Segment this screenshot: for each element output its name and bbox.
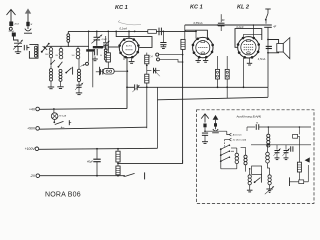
- switch bar S2b: [72, 67, 74, 75]
- lead to tuning cap: [96, 31, 98, 37]
- lead cap to terminal: [103, 71, 108, 73]
- box antenna 2 cup: [213, 129, 218, 131]
- wire y47 band area: [46, 45, 88, 47]
- svg-text:4F: 4F: [222, 19, 225, 22]
- box antenna 2 lead: [215, 120, 217, 129]
- grid coupling cap: [106, 44, 108, 50]
- pencil mark curve: [118, 22, 141, 25]
- box coil Lb4: [266, 152, 270, 163]
- box plug chevron 1: [229, 133, 231, 136]
- ground under trimmer: [15, 52, 21, 54]
- tube V1 ground lead: [131, 58, 133, 62]
- trimmer arrow: [13, 40, 23, 50]
- speaker transformer bottom lead: [268, 51, 279, 54]
- box trimmer 1: [276, 145, 278, 150]
- resistor R5 screen: [226, 56, 228, 69]
- switch blade S2a: [58, 66, 60, 68]
- svg-text:KC 1: KC 1: [115, 5, 128, 11]
- bus A left segment: [127, 86, 134, 88]
- link R5 to bus B: [226, 87, 228, 98]
- ground under tube V1: [129, 62, 135, 64]
- wire grid top lead tube1: [128, 31, 130, 33]
- rail +90V: [39, 127, 147, 129]
- box antenna blob: [203, 124, 206, 128]
- oscillator coupling coil L2: [67, 34, 70, 43]
- ground under L6: [78, 87, 80, 92]
- junction cap down: [163, 31, 165, 33]
- tuning gang rotor bar 2: [86, 49, 94, 51]
- tube V3 cathode to bus: [243, 58, 245, 88]
- wire riser to terminal: [88, 31, 90, 61]
- coil L4: [59, 69, 62, 81]
- tube V1 cathode lead: [126, 58, 128, 109]
- tube V3 ground lead: [249, 58, 251, 63]
- junction 4F: [217, 24, 219, 26]
- tube V2 ground 2: [205, 57, 207, 60]
- svg-text:KC 1: KC 1: [190, 5, 203, 11]
- switch S3 blade: [266, 13, 268, 19]
- capacitor 4F top lead: [220, 14, 222, 22]
- speaker feed vertical: [267, 27, 269, 87]
- tube V2 KC1 envelope: [192, 37, 214, 58]
- box resistor R9 horizontal: [299, 180, 304, 184]
- svg-text:für Übersee[4]: für Übersee[4]: [233, 138, 247, 141]
- antenna terminal: [9, 27, 12, 30]
- box switch near Lb5: [254, 181, 256, 183]
- junction tuning cap: [96, 31, 98, 33]
- terminal +90V: [36, 127, 40, 131]
- AVC vertical line: [182, 49, 184, 163]
- speaker transformer top lead: [268, 40, 279, 44]
- cap 4F bottom lead: [220, 26, 222, 31]
- phono terminal 2: [157, 58, 160, 61]
- box resistor R8 vertical: [298, 138, 300, 162]
- coil L6: [78, 59, 80, 69]
- bus A main: [137, 86, 268, 88]
- wire antenna to trimmer: [14, 37, 19, 43]
- svg-text:60: 60: [100, 55, 102, 57]
- resistor R7 divider lower: [117, 163, 119, 166]
- junction right of tube1: [134, 31, 136, 33]
- junction T1: [146, 65, 148, 67]
- box output bar: [289, 177, 291, 186]
- switch blade L3: [50, 63, 52, 65]
- svg-text:+90V: +90V: [27, 127, 36, 131]
- capacitor 4F plates: [218, 23, 225, 26]
- tuning gang rotor bar 1: [93, 46, 103, 48]
- junction cap 40uF: [96, 148, 98, 150]
- junction T1 bus A: [146, 86, 148, 88]
- capacitor 40uF: [96, 149, 98, 159]
- junction bus/riser: [88, 31, 90, 33]
- svg-text:ACH 1: ACH 1: [126, 45, 133, 48]
- antenna coil L1 winding: [34, 46, 37, 57]
- resistor R6 divider upper: [117, 149, 119, 151]
- dashed enclosure border: [197, 110, 315, 204]
- lead L2 bottom: [67, 42, 69, 47]
- box cap M plates: [256, 124, 259, 130]
- grid lead tube3 up: [252, 25, 254, 38]
- phono terminal 1: [156, 53, 159, 56]
- lead between gang sections: [96, 40, 98, 46]
- switch S3 top bar: [265, 8, 270, 10]
- box coil Lb1: [236, 148, 238, 153]
- svg-text:Ausführung ErA[4]: Ausführung ErA[4]: [236, 115, 262, 119]
- ground under L4: [60, 81, 62, 86]
- band switch S1 contacts: [41, 43, 50, 53]
- junction cathode/bus A: [126, 86, 128, 88]
- divider tap wire: [118, 160, 183, 163]
- box band switch blades: [220, 140, 230, 169]
- ground mid: [94, 56, 96, 58]
- lead into coil box: [27, 47, 29, 49]
- coil L3b: [49, 69, 52, 81]
- box ground under cap: [204, 135, 206, 141]
- grid leak riser: [107, 31, 109, 52]
- grid lead tube2: [195, 31, 197, 33]
- bus B wire: [157, 97, 268, 100]
- box coil Lb3: [267, 127, 269, 134]
- capacitor in series with antenna coil: [24, 45, 27, 50]
- svg-text:+100V: +100V: [25, 147, 36, 151]
- speaker body: [277, 44, 284, 53]
- box small frame: [252, 166, 262, 174]
- gang down lead to ground bus: [92, 52, 94, 88]
- loop wire over tube1: [115, 31, 117, 33]
- capacitor 200pF (blob): [12, 33, 16, 37]
- svg-text:2V 0,2A: 2V 0,2A: [58, 115, 67, 118]
- svg-text:300: 300: [55, 55, 58, 57]
- svg-text:+4V: +4V: [29, 107, 36, 111]
- capacitor C4 series plates: [159, 28, 161, 36]
- terminal +4V: [36, 107, 40, 111]
- junction divider: [117, 148, 119, 150]
- wire cap to tube1: [108, 46, 119, 48]
- coupling cap on bus A: [135, 84, 138, 90]
- coil L5 top row: [77, 46, 79, 48]
- box coil Lb2 top lead: [231, 150, 234, 152]
- box ground under Lb6: [269, 185, 271, 189]
- IF transformer winding T1b: [145, 74, 149, 83]
- oscillator coil L7: [105, 36, 107, 42]
- svg-text:40µF: 40µF: [87, 160, 93, 164]
- loop over tube3 0,2mF: [235, 29, 262, 48]
- box cap under antenna: [204, 130, 206, 132]
- lead padder to cathode line: [114, 70, 127, 72]
- rail +4V: [39, 107, 127, 110]
- padder end bar: [99, 67, 101, 75]
- riser link bus B to bus A: [156, 87, 158, 100]
- tuning cap plates mid: [95, 49, 98, 55]
- svg-text:7,4: 7,4: [149, 56, 153, 59]
- wire 0,55mA: [185, 24, 268, 26]
- box wire y144.8: [251, 144, 311, 146]
- speaker cone: [283, 38, 290, 59]
- mains switch bar: [144, 172, 146, 179]
- inner loop tube3: [244, 34, 262, 38]
- IF tuning cap: [147, 70, 152, 72]
- lamp switch: [53, 119, 55, 122]
- tube V1 KC1 envelope: [118, 38, 139, 58]
- lead T1b to rail riser: [146, 83, 148, 128]
- phono wires: [159, 54, 183, 56]
- svg-text:4,5mA: 4,5mA: [258, 57, 266, 61]
- padder capacitor (pill): [103, 68, 114, 74]
- IF cap arrow: [153, 69, 159, 76]
- svg-text:M: M: [256, 123, 258, 125]
- box arrow pointer: [305, 157, 310, 162]
- box antenna lead: [204, 127, 206, 131]
- corner into oscillator coil: [67, 31, 69, 33]
- rail -2V: [40, 175, 125, 177]
- svg-text:2000: 2000: [45, 54, 49, 56]
- dial lamp: [53, 109, 55, 113]
- trimmer capacitor C1: [14, 43, 22, 46]
- bus A cap arrow: [132, 85, 139, 92]
- box coil Lb5: [249, 169, 251, 175]
- box wire y127 left stub: [246, 127, 248, 131]
- svg-text:0,1mA: 0,1mA: [120, 27, 128, 31]
- antenna socket E: [25, 8, 31, 24]
- coil L3a: [50, 46, 52, 47]
- svg-text:-2V: -2V: [30, 174, 36, 178]
- resistor R3 on 0,55mA line: [184, 25, 186, 39]
- terminal +100V: [35, 147, 39, 151]
- svg-text:4F: 4F: [273, 25, 276, 28]
- wire trimmer to ground: [17, 46, 19, 51]
- ground under L3: [50, 81, 52, 87]
- coupling cap to ground bus: [96, 71, 100, 73]
- trimmer arrow L6: [75, 83, 83, 90]
- coil L4a top row: [60, 46, 62, 48]
- tuning capacitor C2 arrow: [91, 35, 102, 44]
- cap to ground C5: [162, 31, 164, 42]
- junction grid leak: [107, 31, 109, 33]
- svg-text:KL 2: KL 2: [237, 5, 250, 11]
- junction divider mid: [117, 162, 119, 163]
- mains switch on -2V rail: [123, 175, 125, 177]
- box small resistor 4k: [293, 134, 298, 138]
- box antenna arrow: [201, 114, 209, 123]
- box ground under Lb5: [249, 185, 251, 190]
- resistor R2 horizontal: [148, 30, 157, 34]
- socket cup: [24, 26, 32, 33]
- svg-text:500: 500: [72, 55, 75, 57]
- box coil Lb1 contact: [231, 147, 237, 149]
- electrolytic cap plates: [266, 45, 272, 47]
- tube V2 ground 1: [197, 57, 199, 60]
- box resistor feed: [298, 127, 300, 134]
- lead L3: [50, 58, 52, 63]
- arrow to terminal: [80, 64, 85, 66]
- capacitor 4F output plates: [264, 24, 272, 26]
- rail +100V: [39, 148, 158, 149]
- loop over tube2: [185, 30, 207, 38]
- box antenna 2 blob: [214, 123, 217, 126]
- svg-text:Antennen: Antennen: [232, 134, 243, 137]
- antenna A: [7, 10, 16, 27]
- resistor R4 screen: [217, 56, 219, 69]
- box fixed cap plates: [291, 146, 293, 151]
- box link to arrow: [307, 165, 309, 182]
- tube V1 pin lead: [123, 57, 125, 60]
- box core arrow Lb6: [265, 186, 274, 194]
- tube V3 KL2 envelope: [237, 37, 260, 59]
- svg-text:0,55mA: 0,55mA: [194, 21, 203, 25]
- terminal right: [109, 69, 112, 72]
- wave terminal: [86, 62, 89, 65]
- switch blade S2b: [65, 72, 67, 74]
- ground under C5: [162, 45, 164, 47]
- lead R1 to padder: [107, 62, 109, 71]
- tuning capacitor C2 plates: [94, 37, 101, 40]
- lamp switch bar: [68, 120, 70, 125]
- svg-text:NORA B06: NORA B06: [45, 192, 81, 199]
- second gang arrow: [101, 41, 109, 49]
- box trimmer 2: [285, 145, 287, 150]
- box antenna wire to plugs: [205, 130, 227, 132]
- antenna coil L1 box: [29, 44, 38, 58]
- box switch feed wire: [221, 168, 237, 170]
- capacitor in antenna lead (blob): [9, 22, 13, 27]
- terminal -2V: [36, 174, 40, 178]
- resistor R1 grid leak: [106, 53, 110, 62]
- box coil Lb6: [269, 168, 271, 175]
- IF transformer winding (rect) T1a: [145, 55, 149, 64]
- bus B riser to rail3: [156, 100, 158, 149]
- bus B riser right: [267, 87, 269, 97]
- svg-text:0,2mF: 0,2mF: [236, 26, 244, 29]
- box plug chevron 2: [229, 138, 231, 141]
- junction lamp: [53, 108, 55, 110]
- svg-text:An A: An A: [14, 23, 20, 26]
- box top wire y127 right: [259, 126, 311, 128]
- capacitor blob in socket lead: [26, 22, 29, 26]
- wire main grid bus y31.4: [68, 30, 196, 32]
- box antenna 2 triangle: [213, 115, 219, 120]
- box coil Lb2: [245, 150, 247, 155]
- box top wire y127: [247, 126, 255, 128]
- trimmer under L6: [78, 82, 80, 85]
- lead to cap 4F out: [265, 20, 267, 24]
